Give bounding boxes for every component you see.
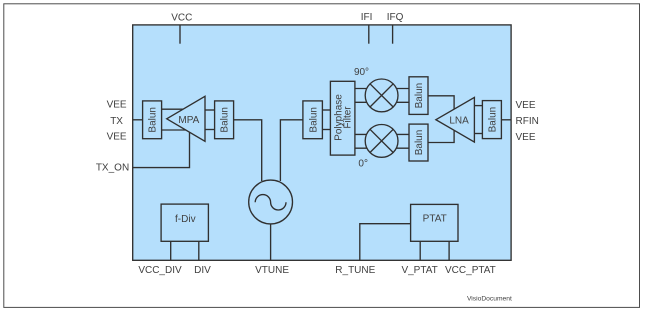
svg-text:DIV: DIV bbox=[194, 265, 211, 276]
wire balun B3 to polyphase (plus) bbox=[322, 109, 330, 111]
svg-text:Balun: Balun bbox=[414, 83, 425, 109]
wire polyphase to mixer MX2 / balun B4b (minus) bbox=[355, 147, 409, 149]
svg-text:PTAT: PTAT bbox=[423, 213, 447, 224]
wire VCC_DIV stub bbox=[170, 241, 172, 260]
svg-text:Balun: Balun bbox=[148, 107, 159, 133]
svg-text:Balun: Balun bbox=[308, 107, 319, 133]
wire polyphase to mixer MX2 / balun B4b (plus) bbox=[355, 133, 409, 135]
wire VCC stub bbox=[179, 25, 181, 44]
svg-text:MPA: MPA bbox=[178, 115, 199, 126]
wire RFIN pin bbox=[501, 119, 511, 121]
svg-text:0°: 0° bbox=[358, 158, 368, 169]
wire V_PTAT stub bbox=[419, 241, 421, 260]
svg-text:90°: 90° bbox=[354, 67, 369, 78]
svg-text:VCC_DIV: VCC_DIV bbox=[138, 265, 182, 276]
svg-text:Balun: Balun bbox=[220, 107, 231, 133]
wire VCO to balun B3 bbox=[280, 120, 303, 181]
balun B4 (I mixer balun) bbox=[409, 77, 428, 115]
svg-text:VCC_PTAT: VCC_PTAT bbox=[445, 265, 496, 276]
mixer MX2 (Q mixer) bbox=[365, 124, 398, 157]
svg-text:RFIN: RFIN bbox=[516, 116, 539, 127]
svg-text:VTUNE: VTUNE bbox=[255, 265, 289, 276]
svg-text:IFQ: IFQ bbox=[387, 12, 404, 23]
svg-text:VCC: VCC bbox=[171, 12, 192, 23]
wire TX_ON to MPA bbox=[133, 128, 190, 168]
svg-text:V_PTAT: V_PTAT bbox=[401, 265, 437, 276]
wire polyphase to mixer MX1 / balun B4 (plus) bbox=[355, 88, 409, 90]
amplifier MPA bbox=[167, 96, 205, 141]
wire VCC_PTAT stub bbox=[448, 241, 450, 260]
svg-text:VisioDocument: VisioDocument bbox=[467, 295, 512, 302]
wire VTUNE stub bbox=[270, 224, 272, 260]
wire polyphase to mixer MX1 / balun B4 (minus) bbox=[355, 101, 409, 103]
block PTAT bbox=[411, 204, 458, 241]
wire MPA to balun B2 (plus) bbox=[205, 109, 215, 111]
svg-text:Balun: Balun bbox=[414, 130, 425, 156]
wire balun B2 to VCO bbox=[234, 120, 262, 181]
chip outline (blue block) bbox=[133, 25, 511, 260]
wire TX pin bbox=[133, 119, 143, 121]
svg-text:R_TUNE: R_TUNE bbox=[335, 265, 375, 276]
balun B1 (TX output balun) bbox=[143, 101, 162, 139]
wire balun B3 to polyphase (minus) bbox=[322, 129, 330, 131]
svg-text:VEE: VEE bbox=[516, 132, 536, 143]
svg-text:IFI: IFI bbox=[361, 12, 373, 23]
block f-Div (frequency divider) bbox=[161, 204, 208, 241]
balun B3 (LO balun) bbox=[303, 101, 323, 139]
svg-text:VEE: VEE bbox=[107, 132, 127, 143]
svg-text:VEE: VEE bbox=[107, 100, 127, 111]
wire IFI stub bbox=[368, 25, 370, 44]
wire balun B1 to MPA (minus) bbox=[162, 129, 190, 131]
wire IFQ stub bbox=[392, 25, 394, 44]
oscillator VCO bbox=[249, 180, 293, 224]
balun B5 (RF input balun) bbox=[482, 101, 501, 139]
wire DIV stub bbox=[198, 241, 200, 260]
balun B2 (MPA input balun) bbox=[215, 101, 234, 139]
svg-text:Balun: Balun bbox=[488, 107, 499, 133]
wire MPA to balun B2 (minus) bbox=[205, 129, 215, 131]
svg-text:Filter: Filter bbox=[342, 106, 353, 129]
mixer MX1 (I mixer) bbox=[365, 79, 398, 112]
svg-text:TX: TX bbox=[110, 116, 123, 127]
balun B4b (Q mixer balun) bbox=[409, 124, 428, 161]
wire LNA to balun B5 (minus) bbox=[474, 133, 482, 135]
amplifier LNA bbox=[436, 97, 475, 142]
wire baluns B4/B4b to LNA output bbox=[428, 96, 454, 143]
svg-text:TX_ON: TX_ON bbox=[96, 162, 129, 173]
svg-text:LNA: LNA bbox=[449, 115, 469, 126]
polyphase filter bbox=[330, 81, 355, 155]
svg-text:f-Div: f-Div bbox=[175, 214, 196, 225]
wire LNA to balun B5 (plus) bbox=[474, 105, 482, 107]
svg-text:VEE: VEE bbox=[516, 100, 536, 111]
wire balun B1 to MPA (plus) bbox=[162, 108, 190, 110]
wire R_TUNE to PTAT bbox=[360, 224, 411, 261]
